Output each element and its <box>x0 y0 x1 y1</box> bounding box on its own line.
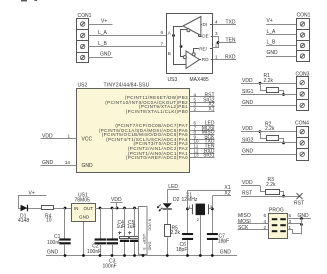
svg-text:GND: GND <box>148 242 153 251</box>
wire TXD from pin 4 <box>213 24 236 26</box>
svg-text:V+: V+ <box>101 19 107 25</box>
svg-text:SIG2: SIG2 <box>242 137 254 143</box>
node C1 junction <box>64 207 67 210</box>
svg-text:PROG: PROG <box>269 207 284 213</box>
svg-text:TXD: TXD <box>226 19 236 25</box>
receiver triangle <box>186 51 200 69</box>
svg-text:(PCINT8/XTAL1/CLKI)PB0: (PCINT8/XTAL1/CLKI)PB0 <box>126 109 188 114</box>
svg-text:3: 3 <box>215 31 218 36</box>
wire GND vertical <box>301 219 303 235</box>
pin label DE <box>202 34 211 38</box>
wire GND pin 5 <box>288 218 312 220</box>
node VDD stub <box>111 197 123 209</box>
svg-text:VCC: VCC <box>82 136 93 142</box>
svg-text:4148: 4148 <box>18 218 29 224</box>
svg-text:D2: D2 <box>173 197 180 203</box>
svg-text:VDD: VDD <box>242 78 253 84</box>
svg-text:GND: GND <box>82 163 94 169</box>
wire V+ stub from CON1 <box>89 24 113 26</box>
wire GND to CON4 <box>241 154 296 156</box>
svg-text:US2: US2 <box>78 83 88 89</box>
wire LED pin 6 <box>190 125 215 127</box>
svg-text:18pF: 18pF <box>176 247 187 253</box>
power pins US3P <box>139 207 153 256</box>
svg-text:US3: US3 <box>168 77 178 83</box>
svg-text:12MHz: 12MHz <box>182 197 198 203</box>
diode D1 4148 <box>18 205 29 224</box>
svg-text:SCK: SCK <box>238 225 249 231</box>
svg-text:6: 6 <box>263 213 266 218</box>
svg-text:L_A: L_A <box>267 29 277 35</box>
wire L_B to MAX485 pin 7 <box>89 46 182 48</box>
svg-text:RE/: RE/ <box>199 47 207 52</box>
receiver enable bubble RE <box>192 53 195 56</box>
transceiver US3 MAX485 <box>167 14 214 84</box>
svg-text:DI: DI <box>203 22 208 27</box>
svg-text:2.2k: 2.2k <box>171 230 181 236</box>
capacitor C6 18pF <box>176 233 193 256</box>
svg-text:7: 7 <box>160 41 163 46</box>
wire MOSI pin 7 <box>190 130 215 132</box>
svg-text:B: B <box>168 51 171 56</box>
wire pin 3 to GND <box>288 223 302 225</box>
wire RST pin 4 <box>190 96 215 98</box>
wire DE <box>198 36 213 38</box>
svg-text:1: 1 <box>215 54 218 59</box>
wire SIG2 to CON4 <box>241 142 296 144</box>
wire V+ stub right <box>266 24 296 26</box>
regulator US1 78M05 <box>72 193 96 256</box>
wire TXD pin 10 <box>190 143 215 145</box>
svg-text:2.2k: 2.2k <box>264 78 274 84</box>
driver inverting output bubble <box>187 29 190 32</box>
pin label DI <box>202 23 210 27</box>
svg-text:4: 4 <box>263 219 266 224</box>
svg-text:L_A: L_A <box>98 30 108 36</box>
svg-text:CON1: CON1 <box>297 13 311 19</box>
svg-text:US3P: US3P <box>142 234 147 245</box>
svg-text:X2: X2 <box>224 191 230 197</box>
svg-text:14: 14 <box>65 160 71 165</box>
crystal X1 12MHz <box>182 190 214 255</box>
LED D2 <box>157 197 180 225</box>
svg-text:100nF: 100nF <box>87 249 101 255</box>
capacitor C3 100nF <box>103 208 119 269</box>
node C3 junction <box>111 207 114 210</box>
svg-text:GND: GND <box>298 213 310 219</box>
svg-text:IN: IN <box>74 206 79 211</box>
wire VDD to R3 <box>241 185 260 187</box>
capacitor C4 1uF polarized <box>117 208 130 256</box>
svg-text:18pF: 18pF <box>218 238 229 244</box>
node LED net <box>167 184 179 203</box>
wire pin 3 DE <box>213 37 219 48</box>
node C2 junction <box>99 207 102 210</box>
svg-text:1uF: 1uF <box>127 224 136 230</box>
wire GND to pin 14 <box>41 165 77 167</box>
svg-text:100nF: 100nF <box>103 263 117 269</box>
pin label RO <box>201 57 211 61</box>
receiver inverting input bubble <box>183 56 186 59</box>
svg-text:CON4: CON4 <box>295 121 309 127</box>
node C4 junction <box>123 207 126 210</box>
node C5 junction <box>133 207 136 210</box>
svg-text:RST: RST <box>242 191 252 197</box>
wire SIG2 pin 5 <box>190 102 215 104</box>
wire RO <box>200 59 214 61</box>
svg-text:GND: GND <box>242 149 254 155</box>
wire SIG1 to CON3 <box>241 94 296 96</box>
wire L_B stub right <box>266 45 296 47</box>
capacitor C5 1uF polarized <box>127 208 139 256</box>
svg-text:GND: GND <box>220 250 232 256</box>
svg-text:LED: LED <box>168 184 178 190</box>
resistor R3 2.2k <box>261 177 285 197</box>
svg-text:RXD: RXD <box>225 54 236 60</box>
svg-text:2: 2 <box>194 106 197 111</box>
svg-text:V+: V+ <box>267 18 273 24</box>
svg-text:GND: GND <box>79 215 90 220</box>
svg-text:1: 1 <box>289 225 292 230</box>
node A junction <box>172 34 175 37</box>
wire A to driver output and receiver input <box>174 27 187 65</box>
wire MISO pin 8 <box>190 134 215 136</box>
svg-text:VDD: VDD <box>111 197 122 203</box>
connector CON1 (left) <box>77 13 92 63</box>
resistor R5 2.2k <box>165 225 181 256</box>
resistor R1 2.2k <box>259 73 285 96</box>
wire RXD from pin 1 <box>213 59 236 61</box>
svg-text:VDD: VDD <box>242 180 253 186</box>
wire X2 pin 3 <box>190 106 215 108</box>
svg-text:SIG1: SIG1 <box>203 152 215 158</box>
capacitor C7 18pF <box>207 233 229 256</box>
svg-text:13: 13 <box>194 152 200 157</box>
svg-text:2: 2 <box>263 225 266 230</box>
wire L_A to MAX485 pin 6 <box>89 35 174 37</box>
svg-text:GND: GND <box>42 160 54 166</box>
MCU US2 TINY24/44/84-SSU <box>77 83 190 173</box>
wire DE enable stub <box>198 34 200 36</box>
svg-text:100nF: 100nF <box>47 240 61 246</box>
wire X1 net <box>188 190 232 192</box>
wire main input line <box>18 208 72 210</box>
svg-text:X1: X1 <box>208 106 214 112</box>
svg-text:6: 6 <box>160 30 163 35</box>
svg-text:(PCINT0/AREF/ADC0)PA0: (PCINT0/AREF/ADC0)PA0 <box>126 155 188 160</box>
header PROG <box>269 207 288 238</box>
wire L_A stub right <box>266 34 296 36</box>
wire RST <box>241 196 300 198</box>
wire X1 pin 2 <box>190 111 215 113</box>
svg-text:1uF: 1uF <box>117 224 126 230</box>
wire RXD pin 12 <box>190 153 215 155</box>
svg-text:OUT: OUT <box>84 206 94 211</box>
resistor R2 2.2k <box>259 122 285 145</box>
svg-text:GND: GND <box>242 100 254 106</box>
svg-text:8 VCC: 8 VCC <box>148 219 153 231</box>
wire RE to enable bubble <box>194 49 213 53</box>
driver triangle <box>183 17 201 36</box>
svg-text:GND: GND <box>100 52 112 58</box>
svg-text:GND: GND <box>47 249 59 255</box>
svg-text:VDD: VDD <box>42 134 53 140</box>
svg-text:MAX485: MAX485 <box>190 77 209 83</box>
wire GND stub right <box>266 56 296 58</box>
wire SIG1 pin 13 <box>190 157 215 159</box>
svg-text:3: 3 <box>289 219 292 224</box>
wire pin 1 to GND <box>288 230 302 234</box>
wire GND to CON3 <box>241 105 296 107</box>
wire VDD to CON4 <box>241 131 296 133</box>
svg-text:TEN: TEN <box>226 37 236 43</box>
wire VDD to CON3 <box>241 83 296 85</box>
svg-text:RO: RO <box>202 57 209 62</box>
wire MOSI pin 4 <box>238 223 269 225</box>
wire SCK pin 9 <box>190 139 215 141</box>
node GND junctions <box>64 254 67 257</box>
svg-text:VDD: VDD <box>242 126 253 132</box>
wire regulator output <box>95 208 139 210</box>
resistor R4 10 <box>42 206 54 224</box>
no-connect cross RST <box>297 193 303 199</box>
svg-text:DE: DE <box>202 34 208 39</box>
svg-text:2.2k: 2.2k <box>266 182 276 188</box>
wire TEN <box>218 42 236 44</box>
svg-text:4: 4 <box>215 19 218 24</box>
node TEN junction <box>217 41 220 44</box>
pin label RE/ <box>199 47 210 51</box>
wire GND stub from CON1 <box>89 57 113 59</box>
connector CON1 (right) <box>296 13 311 62</box>
wire SCK pin 2 <box>238 229 269 231</box>
svg-text:SIG1: SIG1 <box>242 89 254 95</box>
wire X2 net <box>212 195 231 197</box>
connector CON3 <box>296 72 310 111</box>
svg-text:L_B: L_B <box>267 40 277 46</box>
svg-text:GND: GND <box>267 50 279 56</box>
node B junction <box>180 45 183 48</box>
node V+ input <box>19 190 47 208</box>
capacitor C1 100nF <box>47 208 71 256</box>
svg-text:78M05: 78M05 <box>75 198 91 204</box>
wire VDD to pin 1 <box>41 138 77 140</box>
svg-text:RST: RST <box>294 200 304 206</box>
wire DI <box>201 24 213 26</box>
svg-text:V+: V+ <box>29 190 35 196</box>
wire TEN pin 11 <box>190 148 215 150</box>
wire B to driver inverting output and receiver inverting input <box>181 30 187 57</box>
svg-text:TINY24/44/84-SSU: TINY24/44/84-SSU <box>104 83 150 89</box>
svg-text:1: 1 <box>67 134 70 139</box>
svg-text:10: 10 <box>46 217 52 223</box>
cropped text remnants top edge <box>21 0 27 1</box>
capacitor C2 100nF <box>87 208 106 256</box>
svg-text:5: 5 <box>289 213 292 218</box>
svg-text:L_B: L_B <box>98 41 108 47</box>
connector CON4 <box>295 121 309 161</box>
wire GND rail <box>46 255 237 257</box>
